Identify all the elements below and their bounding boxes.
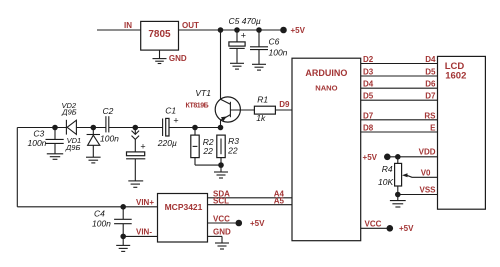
label R4 10K [378, 164, 393, 187]
svg-text:+5V: +5V [250, 219, 265, 228]
node connector junction [133, 125, 139, 131]
label R3 22 [227, 136, 239, 156]
capacitor C2 [106, 116, 109, 132]
label C6 100n [269, 36, 288, 57]
regulator U 7805 [141, 21, 179, 50]
transistor VT1 [215, 97, 254, 128]
svg-text:R3: R3 [228, 136, 239, 146]
svg-text:+: + [173, 116, 178, 126]
svg-text:10K: 10K [378, 177, 393, 187]
wire D5-D7 [361, 99, 438, 101]
node R4 top [395, 154, 401, 160]
svg-text:VIN+: VIN+ [136, 198, 154, 207]
svg-text:+5V: +5V [291, 26, 306, 35]
label C3 100n [28, 129, 47, 148]
wire D2-D4 [361, 63, 438, 65]
svg-text:D9: D9 [279, 100, 290, 109]
svg-text:100n: 100n [28, 138, 47, 148]
label C1 220u [157, 106, 177, 149]
wire rail down to VT1 collector [220, 30, 222, 99]
label C2 100n [100, 106, 119, 143]
capacitor C4 [114, 207, 132, 237]
wire D4-D6 [361, 87, 438, 89]
terminal +5V MCP [236, 220, 243, 227]
wire D8-E [361, 131, 438, 133]
svg-text:C6: C6 [269, 36, 280, 46]
svg-text:VSS: VSS [419, 186, 436, 195]
node C3 [52, 125, 58, 131]
mcu ARDUINO NANO box [292, 58, 361, 241]
terminal +5V arduino [387, 225, 394, 232]
wire GND MCP [208, 235, 223, 237]
svg-text:VCC: VCC [365, 220, 382, 229]
capacitor C1 [163, 116, 179, 137]
label C4 100n [92, 209, 111, 229]
ground below C4 [116, 236, 130, 251]
svg-text:D8: D8 [363, 124, 374, 133]
terminal +5V top [280, 27, 287, 34]
svg-text:A5: A5 [274, 197, 285, 206]
capacitor electrolytic below connector [126, 142, 146, 188]
svg-text:IN: IN [124, 21, 132, 30]
svg-text:NANO: NANO [315, 84, 337, 93]
wire VIN- [123, 235, 157, 237]
svg-text:100n: 100n [100, 133, 119, 143]
svg-text:R1: R1 [257, 95, 268, 105]
svg-text:RS: RS [424, 111, 436, 120]
svg-text:VIN-: VIN- [136, 228, 152, 237]
svg-text:D7: D7 [363, 111, 374, 120]
svg-text:22: 22 [227, 146, 238, 156]
svg-text:+: + [140, 142, 145, 152]
svg-text:+5V: +5V [399, 224, 414, 233]
wire SDA to A4 [208, 197, 293, 199]
wire D7-RS [361, 119, 438, 121]
svg-text:GND: GND [169, 54, 187, 63]
svg-text:VT1: VT1 [195, 88, 211, 98]
svg-text:C1: C1 [165, 106, 176, 116]
svg-text:VCC: VCC [213, 215, 230, 224]
svg-text:ARDUINO: ARDUINO [305, 68, 347, 78]
wire SCL to A5 [208, 204, 293, 206]
svg-text:D4: D4 [363, 80, 374, 89]
node R3 bottom [218, 162, 224, 168]
wire 7805 OUT to +5V rail [179, 29, 284, 31]
node C4 bottom VIN- [120, 234, 126, 240]
svg-text:D5: D5 [425, 68, 436, 77]
ground below 7805 [153, 50, 167, 63]
svg-text:C2: C2 [103, 106, 114, 116]
svg-text:E: E [430, 124, 436, 133]
svg-text:D2: D2 [363, 55, 374, 64]
resistor R1 [254, 106, 292, 114]
wire main signal rail [17, 127, 220, 129]
resistor R3 [217, 135, 225, 165]
svg-text:VDD: VDD [419, 148, 436, 157]
wire VSS [398, 194, 438, 196]
display LCD 1602 box [438, 56, 486, 209]
svg-text:C5 470µ: C5 470µ [229, 16, 261, 26]
connector plug-socket [132, 128, 140, 152]
svg-text:MCP3421: MCP3421 [165, 202, 203, 212]
svg-text:+5V: +5V [363, 153, 378, 162]
diode VD2 [66, 120, 76, 135]
svg-text:D3: D3 [363, 68, 374, 77]
svg-text:V0: V0 [421, 168, 431, 177]
svg-text:7805: 7805 [148, 29, 171, 40]
capacitor C5 [229, 30, 246, 69]
node C4 top [120, 204, 126, 210]
svg-text:Д9Б: Д9Б [61, 108, 76, 117]
svg-text:C4: C4 [94, 209, 105, 219]
node C5 junction [234, 27, 240, 33]
wire R2 bottom to R3 bottom [195, 164, 221, 166]
svg-text:КТ819Б: КТ819Б [186, 102, 209, 109]
node C6 junction [256, 27, 262, 33]
wire VCC MCP [208, 222, 239, 224]
ground below R3 [214, 165, 228, 178]
node R2 top [192, 125, 198, 131]
svg-text:OUT: OUT [182, 21, 199, 30]
label VD1 D9B [65, 136, 81, 152]
ground below MCP GND [215, 236, 229, 249]
svg-text:1602: 1602 [445, 71, 466, 82]
label R2 22 [202, 137, 213, 156]
adc U MCP3421 [158, 194, 208, 243]
node collector rail junction [218, 27, 224, 33]
svg-text:1k: 1k [256, 113, 266, 123]
svg-text:100n: 100n [92, 219, 111, 229]
wire VDD [387, 156, 437, 158]
wire input to 7805 IN [97, 29, 141, 31]
terminal +5V VDD [384, 154, 391, 161]
ground below R4 [390, 195, 406, 208]
wire VCC arduino [361, 227, 390, 229]
capacitor C3 [46, 128, 64, 160]
svg-text:220µ: 220µ [157, 138, 177, 148]
label R1 1k [256, 95, 268, 124]
svg-text:D5: D5 [363, 92, 374, 101]
node VD1 [91, 125, 97, 131]
svg-text:22: 22 [202, 146, 213, 156]
svg-text:GND: GND [213, 228, 231, 237]
capacitor C6 [250, 30, 268, 70]
svg-text:Д9Б: Д9Б [65, 143, 80, 152]
svg-text:R4: R4 [382, 164, 393, 174]
svg-text:SCL: SCL [213, 197, 229, 206]
svg-text:+: + [241, 31, 246, 41]
node emitter R3 top [218, 125, 224, 131]
wire left drop to VIN+ [17, 128, 157, 207]
svg-text:D7: D7 [425, 92, 436, 101]
label VD2 D9B [61, 101, 77, 117]
potentiometer R4 [395, 157, 438, 195]
resistor R2 [191, 128, 199, 166]
diode VD1 [86, 128, 101, 163]
wire D3-D5 [361, 75, 438, 77]
svg-text:D6: D6 [425, 80, 436, 89]
svg-text:D4: D4 [425, 55, 436, 64]
svg-text:100n: 100n [269, 47, 288, 57]
node R4 bottom [395, 192, 401, 198]
